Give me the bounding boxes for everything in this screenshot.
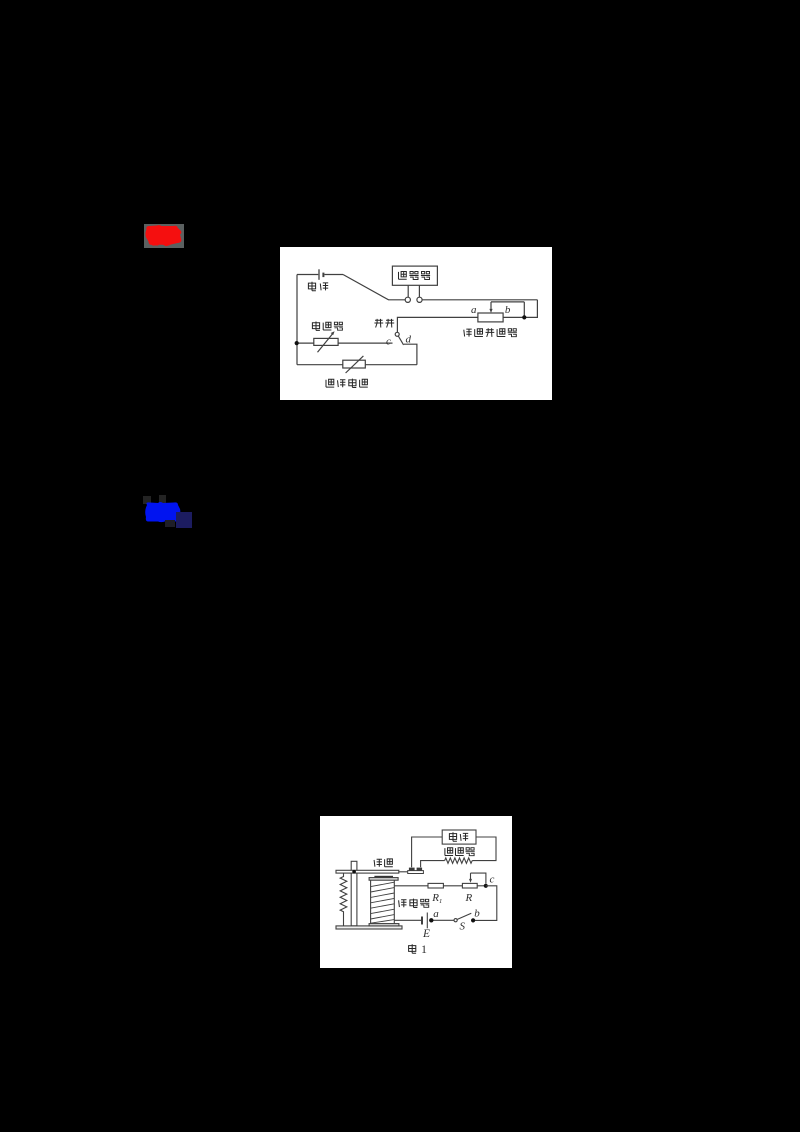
resistance box bbox=[314, 338, 338, 345]
spring bbox=[340, 873, 347, 926]
wire: left vertical bbox=[296, 275, 298, 365]
label: thermistor (re min dian zu) bbox=[326, 379, 368, 388]
FIGURE 2 bbox=[320, 816, 512, 968]
label: alarm (bao jing qi) bbox=[399, 272, 431, 280]
pivot dot bbox=[352, 870, 356, 874]
alarm box bbox=[392, 266, 437, 285]
wire: a-side to switch top bbox=[397, 317, 478, 332]
wire: right terminal to right side bbox=[422, 299, 537, 301]
label: power source (dian yuan) bbox=[308, 282, 328, 291]
coil top plate bbox=[369, 878, 398, 881]
svg-text:a: a bbox=[471, 304, 477, 316]
wire: a to switch bbox=[431, 919, 454, 921]
wire: battery to diagonal bbox=[324, 274, 343, 276]
wire: power left to contact bbox=[412, 837, 443, 867]
svg-text:b: b bbox=[505, 304, 511, 316]
wire: heater left down to contact bbox=[421, 861, 445, 868]
coil body with windings bbox=[371, 880, 395, 923]
wire: d-side to bottom bbox=[404, 344, 417, 365]
switch pivot circle bbox=[395, 332, 399, 336]
coil top dark strip bbox=[374, 876, 393, 878]
wire: terminals up to alarm box bbox=[408, 285, 419, 297]
heater resistor zigzag bbox=[445, 858, 473, 863]
wire: top-left to battery bbox=[297, 274, 318, 276]
wire: power right to heater bbox=[472, 837, 496, 861]
label: armature (xian tie) bbox=[374, 859, 393, 867]
wire: diagonal down to alarm terminals bbox=[343, 275, 405, 300]
wire: right vertical down to b bbox=[503, 300, 537, 318]
junction dot b bbox=[471, 918, 475, 922]
resistance box arrow bbox=[318, 331, 335, 352]
wire: bottom through thermistor bbox=[297, 364, 417, 366]
blue analysis badge bbox=[138, 492, 196, 532]
junction dot c bbox=[484, 884, 488, 888]
battery (power source) bbox=[319, 269, 323, 280]
wire: R1 to R bbox=[443, 885, 462, 887]
terminal circle right bbox=[417, 297, 422, 302]
svg-text:b: b bbox=[474, 908, 480, 920]
thermistor body bbox=[343, 360, 366, 368]
switch S blade bbox=[457, 913, 471, 919]
wire: armature to contacts bbox=[399, 871, 408, 873]
power box bbox=[442, 830, 476, 844]
caption: figure 1 (tu 1) bbox=[409, 942, 427, 956]
switch blade bbox=[398, 336, 403, 345]
label: relay (ji dian qi) bbox=[399, 899, 430, 908]
armature bar bbox=[336, 870, 399, 873]
svg-text:R1: R1 bbox=[431, 892, 442, 905]
label: power source bbox=[449, 832, 468, 841]
resistor R1 bbox=[428, 883, 443, 888]
junction dot at b bbox=[522, 315, 526, 319]
slide rheostat body bbox=[478, 313, 503, 322]
shared pseudo-CJK glyph defs bbox=[0, 0, 1, 1]
svg-text:d: d bbox=[405, 334, 411, 346]
wire: c-row from node through resistance box bbox=[297, 342, 393, 344]
battery E bbox=[422, 913, 427, 929]
svg-text:a: a bbox=[433, 908, 439, 920]
R slider arrow and bracket bbox=[469, 873, 486, 884]
svg-text:E: E bbox=[422, 928, 430, 940]
wire: c right and down to b bbox=[473, 886, 497, 921]
rheostat R bbox=[462, 883, 477, 888]
wire: coil bottom to battery bbox=[395, 919, 422, 921]
relay contact pads bbox=[408, 868, 424, 874]
svg-text:c: c bbox=[386, 336, 391, 348]
thermistor diagonal line bbox=[346, 356, 364, 373]
label: resistance box (dian zu xiang) bbox=[312, 322, 343, 331]
rheostat slider bracket and arrow bbox=[489, 302, 524, 318]
junction dot a bbox=[429, 918, 433, 922]
switch S circle bbox=[454, 919, 457, 922]
svg-text:1: 1 bbox=[421, 942, 427, 956]
junction dot left bbox=[295, 341, 299, 345]
svg-text:S: S bbox=[460, 921, 466, 933]
label: switch (kai guan) bbox=[374, 319, 394, 328]
wire: R to c bbox=[477, 885, 486, 887]
wire: coil to R1 bbox=[394, 885, 428, 887]
label: sliding rheostat (hua dong bian zu qi) bbox=[464, 328, 517, 337]
FIGURE 1 bbox=[280, 247, 552, 400]
terminal circle left bbox=[405, 297, 410, 302]
label: heater (jia re qi) bbox=[445, 848, 475, 856]
base plate bbox=[336, 926, 402, 929]
svg-text:R: R bbox=[465, 892, 473, 904]
relay post bbox=[351, 861, 357, 926]
svg-text:c: c bbox=[490, 874, 495, 886]
coil bottom plate bbox=[369, 924, 399, 926]
red answer badge bbox=[144, 224, 184, 248]
